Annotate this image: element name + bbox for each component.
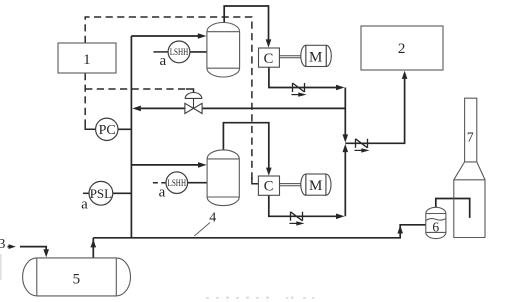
scan artifact left edge xyxy=(0,254,2,280)
svg-text:a: a xyxy=(159,53,166,69)
svg-text:PSL: PSL xyxy=(90,186,112,201)
box 1 (control panel) xyxy=(58,43,116,73)
wire: recycle line through control valve back to header xyxy=(202,107,345,109)
vessel 6 (small knockout drum) xyxy=(426,207,446,238)
svg-text:7: 7 xyxy=(467,129,474,144)
svg-text:LSHH: LSHH xyxy=(168,179,187,189)
instrument LSHH2 xyxy=(166,172,188,194)
svg-text:LSHH: LSHH xyxy=(170,48,189,58)
wire: inlet 3 into vessel 5 xyxy=(8,246,11,248)
check symbol on C1 discharge xyxy=(293,83,305,92)
instrument stub left of PSL xyxy=(83,192,89,194)
instrument stub left of LSHH1 xyxy=(154,51,169,53)
wire: compressor C2 discharge down and right xyxy=(269,195,337,216)
shaft C2-M2 xyxy=(280,184,302,186)
check symbol on C2 discharge xyxy=(291,212,303,221)
instrument LSHH1 xyxy=(168,41,190,63)
instrument dashes left of LSHH2 xyxy=(153,182,166,184)
wire: signal dashed from corner to control valve xyxy=(85,88,187,90)
svg-text:1: 1 xyxy=(83,52,91,68)
svg-text:PC: PC xyxy=(99,123,116,138)
instrument PC xyxy=(96,118,118,140)
wire: signal solid corner into valve actuator xyxy=(186,89,194,93)
check symbol on line to box 2 xyxy=(356,139,368,148)
wire: discharge rise to junction xyxy=(344,151,346,217)
wire: vessel V2 top to compressor C2 suction xyxy=(223,123,268,170)
wire: vessel V1 top to compressor C1 suction xyxy=(224,6,268,42)
wire: discharge drop to junction xyxy=(344,88,346,137)
label 4 with leader xyxy=(194,223,210,237)
svg-text:5: 5 xyxy=(73,271,81,287)
wire: PSL to header xyxy=(113,192,132,194)
svg-text:3: 3 xyxy=(0,237,5,252)
wire: PC to header xyxy=(118,128,131,130)
shaft C1-M1 xyxy=(279,56,301,58)
vessel 5 (horizontal separator) xyxy=(23,258,131,296)
motor M1 xyxy=(301,45,332,66)
instrument PSL xyxy=(89,181,113,205)
wire: main suction vertical header xyxy=(130,36,132,238)
wire: junction to box 2 xyxy=(345,77,404,143)
control valve PV with diaphragm actuator xyxy=(185,93,202,114)
svg-text:a: a xyxy=(159,185,166,201)
compressor C2 xyxy=(258,176,279,195)
motor M2 xyxy=(301,174,331,195)
faint cut-off caption at bottom xyxy=(206,297,314,299)
wire: LSHH2 to vessel V2 xyxy=(187,182,207,184)
svg-text:4: 4 xyxy=(209,211,216,226)
svg-text:6: 6 xyxy=(432,219,439,234)
wire: signal dashed from box 1 top, over vessel V1, down to compressor C2 xyxy=(85,17,252,180)
wire: LSHH1 to vessel V1 xyxy=(190,51,207,53)
svg-text:M: M xyxy=(309,49,322,65)
svg-text:2: 2 xyxy=(398,41,406,57)
wire: signal dashed corner into PC left side xyxy=(85,122,95,129)
wire: signal dashed from box 1 bottom down to PC xyxy=(84,73,86,124)
wire: compressor C1 discharge down and right xyxy=(269,67,337,87)
wire: riser from vessel 5 to manifold xyxy=(92,238,94,258)
wire: signal dashed corner into C2 left side xyxy=(252,178,258,184)
wire: vessel 6 top to flare stack dip pipe xyxy=(436,199,470,218)
box 2 xyxy=(361,26,443,70)
vessel V1 (suction scrubber, upper) xyxy=(207,22,240,76)
svg-text:M: M xyxy=(309,178,322,194)
wire: feed into vessel V2 xyxy=(131,164,199,166)
svg-text:C: C xyxy=(264,179,274,195)
wire: bottom manifold to vessel 6 xyxy=(93,225,425,238)
compressor C1 xyxy=(259,48,280,67)
svg-text:C: C xyxy=(264,51,274,67)
vessel V2 (suction scrubber, lower) xyxy=(207,150,239,206)
flare stack 7 xyxy=(454,98,485,237)
wire: feed into vessel V1 xyxy=(131,35,199,37)
svg-text:a: a xyxy=(81,196,88,212)
